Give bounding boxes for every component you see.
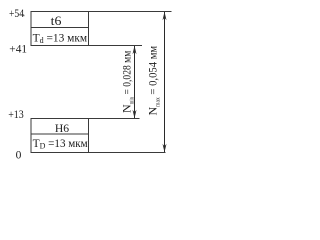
tolerance zone box t6 (shaft) bbox=[31, 12, 89, 46]
dimension line Nmax bbox=[163, 12, 167, 152]
dimension line Nmin bbox=[133, 46, 137, 118]
tolerance zone box H6 (hole) bbox=[31, 119, 89, 153]
extension line +13 level bbox=[89, 118, 140, 120]
svg-text:0: 0 bbox=[16, 150, 22, 162]
svg-text:Nmax = 0,054 мм: Nmax = 0,054 мм bbox=[145, 45, 161, 115]
extension line +54 level bbox=[89, 11, 172, 13]
extension line +41 level bbox=[89, 45, 143, 47]
svg-text:+41: +41 bbox=[9, 43, 27, 55]
speck after label +54 bbox=[23, 15, 24, 16]
svg-text:t6: t6 bbox=[51, 13, 62, 28]
svg-text:Td =13 мкм: Td =13 мкм bbox=[33, 32, 88, 45]
svg-text:TD =13 мкм: TD =13 мкм bbox=[33, 138, 89, 151]
svg-text:+54: +54 bbox=[9, 8, 24, 20]
extension line 0 level bbox=[89, 152, 166, 154]
svg-text:Н6: Н6 bbox=[55, 121, 69, 135]
svg-text:+13: +13 bbox=[8, 109, 24, 121]
svg-text:Nmin = 0,028 мм: Nmin = 0,028 мм bbox=[120, 50, 136, 113]
